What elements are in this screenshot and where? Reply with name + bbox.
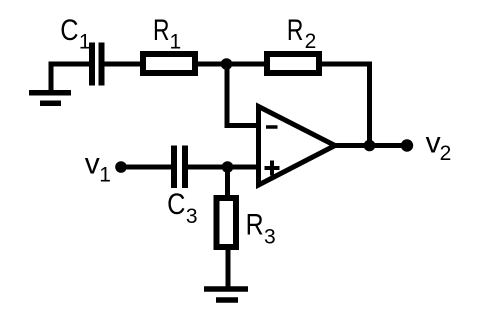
- svg-text:C: C: [60, 14, 78, 47]
- svg-text:R: R: [246, 209, 264, 242]
- svg-text:2: 2: [440, 142, 452, 165]
- svg-text:1: 1: [79, 30, 91, 53]
- svg-text:1: 1: [170, 30, 182, 53]
- svg-text:v: v: [426, 127, 441, 160]
- svg-text:3: 3: [264, 226, 276, 249]
- svg-text:3: 3: [186, 205, 198, 228]
- svg-text:R: R: [153, 14, 170, 47]
- svg-text:1: 1: [99, 164, 111, 187]
- svg-text:2: 2: [305, 30, 317, 53]
- svg-text:v: v: [85, 147, 100, 180]
- svg-text:C: C: [167, 188, 185, 221]
- svg-text:R: R: [287, 14, 304, 47]
